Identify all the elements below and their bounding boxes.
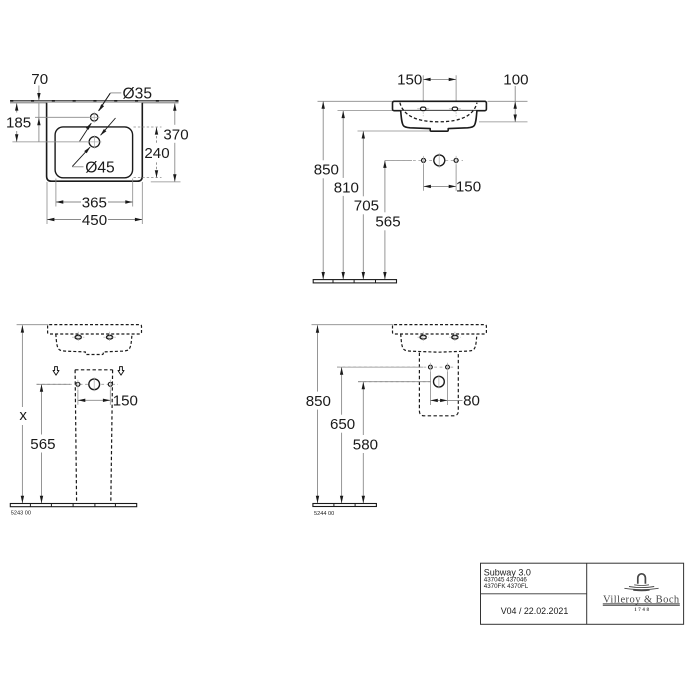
view 3 fixing oval right	[107, 335, 113, 339]
dim X line	[21, 325, 23, 503]
view 3 small circle left	[76, 382, 80, 386]
title block horizontal divider	[481, 593, 587, 595]
logo wave center bar	[633, 589, 649, 592]
dim 240 dashed extension top	[134, 126, 162, 128]
dim 810 arrows view2	[342, 111, 345, 118]
svg-text:80: 80	[463, 393, 480, 410]
dim 240 arrow top	[155, 127, 158, 134]
dim 100 arrows	[514, 101, 517, 108]
view 3 hole line solid left part	[37, 383, 71, 385]
leader line D45 upper diagonal	[101, 118, 116, 135]
dim 100 line	[514, 86, 516, 122]
dim 370 label bg	[164, 125, 189, 143]
view 4 hole line 580 solid left part	[358, 381, 430, 383]
view 3 center circle	[89, 379, 100, 390]
title block vertical divider	[586, 563, 588, 624]
svg-text:Ø45: Ø45	[85, 160, 115, 177]
dim 580 line view4	[362, 382, 364, 503]
leader line D35 upper diagonal	[99, 93, 111, 111]
view 2 hole line solid left part	[385, 159, 412, 161]
dim 150 line view3	[78, 399, 110, 401]
view 3 hole line	[37, 383, 119, 385]
leader line D35 tick	[110, 92, 121, 94]
dim 370 line	[174, 103, 176, 181]
leader line D35 lower diagonal	[80, 123, 92, 141]
dim 150 bottom line	[424, 185, 457, 187]
dim 810 label bg view2	[335, 178, 360, 196]
view 4 small circle left	[429, 365, 433, 369]
view 1 wall line (gray band with hatch ticks)	[10, 101, 179, 103]
dim 150 extension lines view3	[77, 390, 79, 405]
dim 705 line view2	[362, 131, 364, 279]
view 3 fixing oval left	[75, 335, 81, 339]
dim 650 label bg view4	[330, 415, 355, 433]
title block outer frame	[481, 563, 684, 624]
dim 565 label bg view2	[377, 212, 402, 230]
svg-text:150: 150	[397, 72, 422, 89]
svg-text:365: 365	[82, 194, 107, 211]
dim 370 arrow bottom	[173, 174, 176, 181]
dim 450 arrow right	[135, 218, 142, 221]
dim 365 arrow left	[56, 200, 63, 203]
view 2 bottom extension line (705)	[358, 130, 432, 132]
dim 450 arrow left	[47, 218, 54, 221]
dim 850 line view4	[317, 325, 319, 503]
dim 185 label bg	[7, 113, 32, 132]
logo arch symbol	[638, 574, 646, 584]
svg-text:705: 705	[354, 198, 379, 215]
svg-text:V04 / 22.02.2021: V04 / 22.02.2021	[501, 606, 569, 616]
view 2 hidden bowl dashed curve	[400, 103, 477, 122]
dim 565 label bg view3	[31, 435, 56, 453]
dim 365 arrow right	[125, 200, 132, 203]
view 1 inner basin rounded rect	[55, 127, 133, 178]
view 2 floor line	[313, 280, 396, 283]
view 3 floor line	[10, 504, 136, 507]
view 3 pedestal dashed outline	[75, 369, 113, 371]
dim 185 extension line at drain	[12, 141, 89, 143]
svg-text:565: 565	[30, 436, 55, 453]
view 3 small circle right	[108, 382, 112, 386]
dim 70 line below hole line	[38, 103, 40, 142]
view 3 mounting direction arrow right	[118, 367, 124, 376]
svg-text:850: 850	[314, 162, 339, 179]
leader D35 arrow upper	[99, 104, 105, 111]
svg-text:450: 450	[82, 212, 107, 229]
dim 450 line	[47, 219, 142, 221]
dim 365 extension lines	[55, 179, 57, 207]
dim 810 line view2	[342, 111, 344, 280]
dim 70 arrow at hole line	[37, 118, 40, 125]
leader D45 arrow lower	[84, 147, 90, 154]
view 2 fixing hole oval left	[417, 108, 429, 110]
dim 80 arrows	[430, 399, 437, 402]
dim 150 arrows view3	[78, 399, 85, 402]
svg-text:240: 240	[144, 145, 169, 162]
view 1 wall hatch ticks	[10, 100, 13, 102]
dim 850 label bg view2	[315, 160, 340, 178]
view 4 top extension line (850)	[312, 324, 394, 326]
svg-text:370: 370	[163, 127, 188, 144]
dim 650 line view4	[341, 367, 343, 503]
view 2 top extension line right (100)	[488, 100, 528, 102]
dim 705 arrows view2	[362, 131, 365, 138]
view 4 fixing oval right	[452, 335, 458, 339]
dim 70 extension line to tap hole	[35, 116, 90, 118]
svg-text:Ø35: Ø35	[123, 85, 153, 102]
dim 240 dashed extension bottom	[134, 177, 162, 179]
view 4 hole line 580	[358, 381, 444, 383]
logo underline double	[603, 603, 680, 605]
dim 80 line	[430, 399, 462, 401]
view 4 small circle right	[446, 365, 450, 369]
dim 450 label bg	[81, 211, 108, 229]
dim X label bg	[16, 407, 31, 425]
logo wave 1	[634, 584, 649, 587]
view 3 mounting direction arrow left	[53, 367, 59, 376]
view 4 hole line 650 solid left part	[337, 366, 423, 368]
view 2 basin body outline with drain boss	[401, 111, 477, 132]
view 4 floor line	[313, 504, 377, 507]
view 4 dashed basin body	[401, 334, 477, 352]
svg-text:810: 810	[334, 179, 359, 196]
leader line D45 tick	[72, 166, 83, 168]
center circle (mixer hole)	[434, 155, 445, 166]
view 2 rim-bottom extension line (810)	[338, 110, 399, 112]
dim 850 line view2	[322, 101, 324, 279]
dim 240 arrow bottom	[155, 170, 158, 177]
leader D35 arrow lower	[86, 123, 92, 130]
dim 650 arrows view4	[340, 367, 343, 374]
tap hole circle D35	[91, 114, 98, 121]
small fixing circle left	[422, 158, 426, 162]
view 2 bowl-bottom extension line right (100)	[479, 121, 528, 123]
dim 365 label bg	[81, 193, 108, 211]
dim 370 arrow top	[173, 103, 176, 110]
drain hole circle D45	[89, 137, 100, 148]
view 4 siphon cover dashed outline	[419, 353, 458, 416]
dim 850 arrows view4	[316, 325, 319, 332]
view 1 basin outer outline 450x370	[47, 103, 143, 181]
dim 150 bottom extension lines	[423, 165, 425, 191]
svg-text:70: 70	[31, 71, 48, 88]
svg-text:150: 150	[456, 179, 481, 196]
svg-text:4370FK 4370FL: 4370FK 4370FL	[484, 583, 529, 590]
view 3 dashed basin rim	[48, 325, 142, 334]
leader D45 arrow upper	[100, 129, 106, 136]
dim 70 line above wall	[38, 86, 40, 100]
small fixing circle right	[454, 158, 458, 162]
dim 185 arrow bottom	[15, 134, 18, 141]
dim 450 extension lines	[46, 182, 48, 224]
svg-text:150: 150	[113, 393, 138, 410]
view 4 hole line 650	[337, 366, 455, 368]
dim 150 top arrows	[423, 78, 430, 81]
view 2 fixing hole extension lines (150 top)	[422, 75, 424, 110]
dim 150 bottom arrows	[424, 185, 431, 188]
view 2 basin rim outline	[393, 101, 487, 110]
view 4 fixing oval left	[420, 335, 426, 339]
svg-text:x: x	[19, 407, 27, 424]
dim 70 arrow at wall	[37, 93, 40, 100]
svg-text:580: 580	[353, 436, 378, 453]
hole line through circles	[386, 159, 463, 161]
view 4 drain circle	[434, 376, 445, 387]
dim 565 line view3	[41, 384, 43, 503]
logo wave 2	[629, 587, 654, 588]
dim 705 label bg view2	[355, 196, 380, 214]
dim X arrows	[21, 325, 24, 332]
dim 580 label bg view4	[353, 435, 378, 453]
leader line D45 lower diagonal	[72, 147, 90, 166]
svg-text:565: 565	[375, 214, 400, 231]
svg-text:5244 00: 5244 00	[314, 511, 334, 517]
svg-text:1748: 1748	[634, 608, 650, 613]
svg-text:650: 650	[330, 416, 355, 433]
view 2 fixing hole oval right	[449, 108, 461, 110]
svg-text:850: 850	[306, 393, 331, 410]
dim 240 label bg	[145, 144, 170, 162]
dim 185 line	[16, 103, 18, 142]
view 2 top extension line left (850)	[318, 100, 394, 102]
dim 150 top line	[423, 78, 456, 80]
dim 365 line	[56, 201, 133, 203]
svg-text:100: 100	[503, 72, 528, 89]
logo wave 3	[624, 588, 658, 589]
dim 850 arrows view2	[322, 101, 325, 108]
dim 80 extension lines	[429, 372, 431, 406]
svg-text:185: 185	[6, 115, 31, 132]
dim 565 arrows view2	[383, 161, 386, 168]
view 4 dashed basin rim	[393, 325, 487, 334]
dim 565 arrows view3	[40, 384, 43, 391]
dim 850 label bg view4	[306, 392, 331, 410]
svg-text:5243 00: 5243 00	[11, 511, 31, 517]
dim 370 bottom extension line	[151, 181, 181, 183]
view 3 dashed basin body	[56, 334, 132, 355]
dim 580 arrows view4	[362, 382, 365, 389]
dim 565 line view2	[384, 161, 386, 280]
dim 240 dashed line	[156, 127, 158, 177]
view 3 top extension line (X)	[17, 324, 49, 326]
leader line D35 upper diagonal	[99, 93, 111, 111]
dim 185 arrow top	[15, 103, 18, 110]
